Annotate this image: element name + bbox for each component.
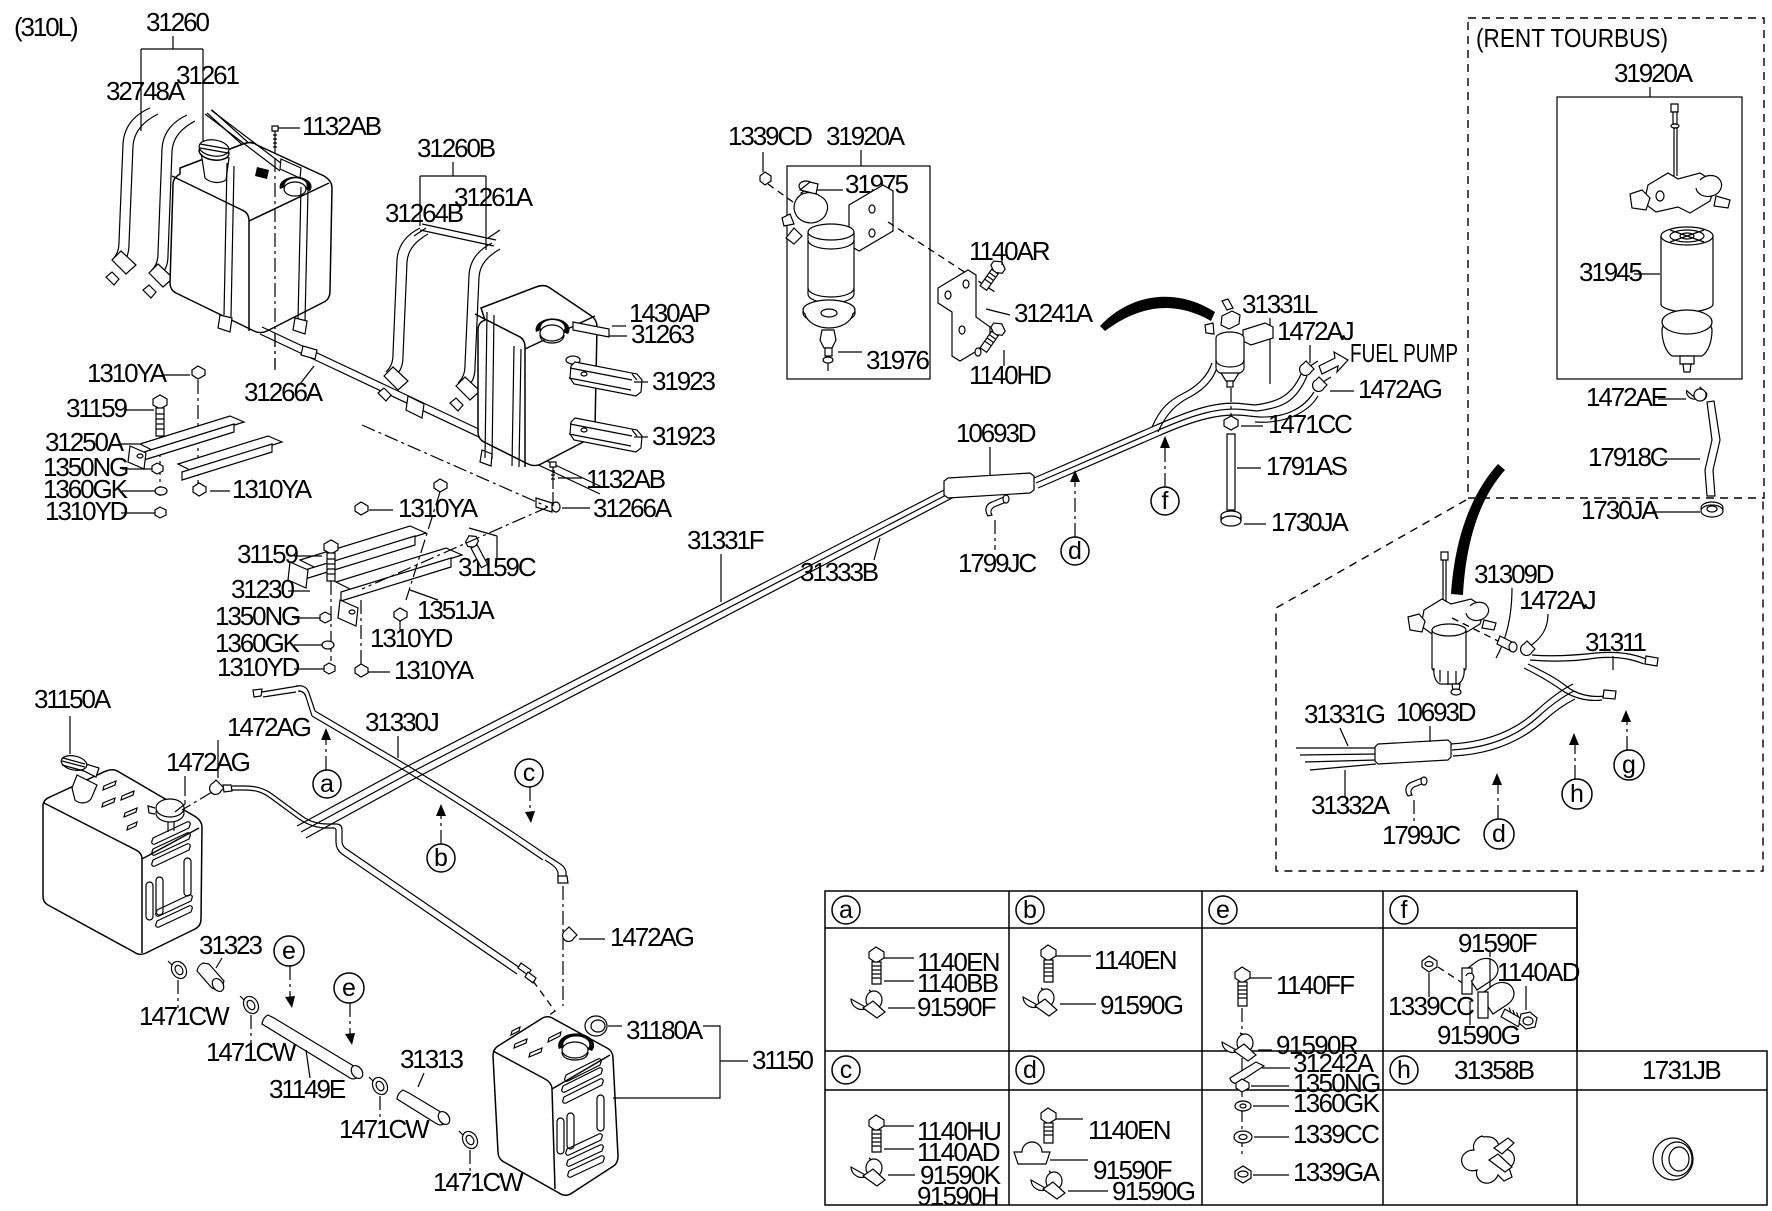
svg-text:31920A: 31920A [826,121,906,151]
svg-text:91590G: 91590G [1112,1176,1195,1206]
strap 32748A outer band [112,108,158,264]
pipe fitting mid [518,963,531,975]
crossmember tube from tank1 [260,327,602,494]
svg-text:1310YD: 1310YD [45,496,128,526]
clamp 1472AG bottom mid [563,927,577,941]
sensor rod [1671,104,1679,176]
cell c: bolt 1140HU/1140AD [869,1115,1000,1167]
svg-text:d: d [1492,820,1506,848]
bottom-right dashed group [1276,464,1763,871]
grommet 1730JA [1221,511,1241,526]
svg-text:1472AG: 1472AG [1358,374,1442,404]
svg-text:1472AJ: 1472AJ [1519,585,1596,615]
svg-text:31149E: 31149E [269,1074,346,1104]
svg-text:1310YD: 1310YD [370,623,453,653]
top face marks [511,1027,561,1057]
svg-text:31945: 31945 [1579,257,1642,287]
svg-text:1339GA: 1339GA [1293,1157,1381,1187]
clamp 1472AG top [210,780,224,794]
clamp 1472AJ icon [1521,641,1535,655]
cell f: clamp 91590F [1458,928,1537,994]
strap 31264B band [386,228,428,376]
svg-text:1339CC: 1339CC [1388,991,1474,1021]
cell e: nut 1339GA [1235,1157,1381,1187]
bolt 1140HD [978,320,1008,354]
circle g [1614,750,1644,780]
cell d: clamp 91590G [1031,1171,1195,1206]
cell b: bolt 1140EN [1041,945,1176,982]
clamp 1472AG mid [1313,377,1327,391]
cell d: clamp 91590F [1014,1142,1172,1185]
svg-text:91590G: 91590G [1437,1020,1520,1050]
circle d [1061,537,1089,565]
cell e: washer 1360GK [1235,1088,1381,1118]
pipe to fuel pump lower [1255,392,1318,422]
svg-text:d: d [1023,1056,1037,1084]
tank 31260 body [170,143,332,333]
bottom-left group [34,684,814,1197]
cell f: bolt 1140AD [1497,957,1580,1029]
cell d: bolt 1140EN [1041,1108,1170,1145]
filter canister 31920A [808,224,854,303]
S pipe from bundle to filter [1152,363,1216,432]
cell e: nut 1350NG [1236,1068,1380,1098]
strap 32748A foot [112,251,136,274]
drain sensor 31976 [820,330,929,375]
tank cap right [148,799,184,832]
clamp 1471CW 4 [459,1129,481,1152]
circle a [313,770,341,798]
top-left group: tank 31260 [14,7,602,685]
mounting bracket 31241A [938,270,990,361]
banjo fitting [1452,618,1500,642]
cell h: clamp 31358B icon [1462,1136,1515,1183]
svg-text:31923: 31923 [652,366,715,396]
sleeve 10693D [944,473,1034,498]
black swoosh top [1100,297,1215,331]
svg-text:31180A: 31180A [626,1015,704,1045]
filler cap 31150 black [558,1033,594,1051]
filter 31309D rod [1441,552,1448,560]
cell e: clamp 91590R [1222,1008,1358,1158]
inner solid box [1557,97,1742,379]
fuel pump arrow [1319,352,1348,374]
tank 31150 body [493,1017,618,1196]
svg-text:d: d [1068,537,1082,565]
svg-text:31323: 31323 [199,930,262,960]
svg-text:31331G: 31331G [1304,699,1385,729]
dashed boundary [1276,500,1763,871]
svg-text:1731JB: 1731JB [1642,1055,1720,1085]
pin for 31266A [301,346,317,359]
bolt 1132AB [272,111,381,368]
svg-text:32748A: 32748A [106,76,186,106]
table grid [825,891,1767,1205]
tube 1791AS [1227,434,1235,510]
circle c [515,759,543,787]
svg-text:31332A: 31332A [1311,790,1391,820]
svg-text:1310YD: 1310YD [217,652,300,682]
crossmember connector [406,396,424,418]
svg-text:31230: 31230 [231,574,294,604]
svg-text:(310L): (310L) [14,12,78,42]
svg-text:1310YA: 1310YA [232,474,313,504]
svg-text:f: f [1401,896,1408,924]
svg-text:1140AD: 1140AD [1497,957,1580,987]
circle e 1 [274,936,304,966]
svg-text:1471CW: 1471CW [139,1001,230,1031]
tank strap left face [224,163,234,317]
tank2 filler cap [536,318,570,343]
svg-text:31159: 31159 [66,393,128,423]
louvers right face [146,822,192,928]
strap top link [414,224,500,246]
svg-text:31261A: 31261A [454,182,534,212]
cell letter h [1390,1056,1418,1084]
clamp 1472AJ [1300,361,1314,375]
filter head bracket [782,182,893,251]
svg-text:b: b [1023,896,1037,924]
svg-text:1132AB: 1132AB [586,464,665,494]
box outline [787,166,930,379]
cell f: clamp 91590G [1437,982,1520,1050]
svg-text:1799JC: 1799JC [958,548,1036,578]
second bracket group 31230 [288,526,462,626]
tank2 small vent [566,356,580,364]
svg-text:1140HD: 1140HD [969,360,1051,390]
strap 31261 foot [149,264,173,287]
svg-text:c: c [840,1056,853,1084]
circle b [427,844,455,872]
svg-text:10693D: 10693D [956,418,1036,448]
svg-text:1730JA: 1730JA [1271,507,1349,537]
svg-text:31923: 31923 [652,421,715,451]
svg-text:1132AB: 1132AB [302,111,381,141]
svg-text:31976: 31976 [866,345,929,375]
svg-text:1140EN: 1140EN [1088,1115,1170,1145]
pipe end upper [1310,361,1318,366]
bolt 1132AB #2 [550,462,665,494]
svg-text:31313: 31313 [400,1044,463,1074]
bracket 31250A rails [128,416,282,480]
dashes to tank 31150 [533,981,565,1053]
tank 31260B body [478,286,597,466]
circle h [1562,779,1592,809]
svg-text:1140EN: 1140EN [1094,945,1176,975]
hose 31313 [397,1090,452,1127]
bundle from sleeve left [1296,748,1376,770]
svg-text:31920A: 31920A [1614,58,1694,88]
nut 1471CC [1224,416,1238,430]
svg-text:31264B: 31264B [385,198,463,228]
strap over top [205,110,286,171]
svg-text:e: e [1216,896,1230,924]
svg-text:31150A: 31150A [34,684,112,714]
tank2 group: 31260B [362,133,715,589]
label 31150 with bracket [613,1026,748,1098]
filler neck 31150A [60,753,99,802]
hose 17918C [1705,401,1720,496]
svg-text:1472AG: 1472AG [166,747,250,777]
filter head assembly [1630,173,1730,213]
cell e: bracket 31242A [1230,1048,1375,1083]
svg-text:f: f [1162,487,1169,515]
svg-text:1339CD: 1339CD [728,121,812,151]
clip 1799JC [986,495,1009,516]
svg-text:e: e [282,937,296,965]
clamp 1471CW 2 [240,994,262,1017]
svg-text:1310YA: 1310YA [394,655,475,685]
pin 31266A #2 [536,493,673,523]
svg-text:1351JA: 1351JA [417,595,495,625]
cell h: grommet 1731JB icon [1653,1138,1693,1180]
black swoosh right [1451,464,1505,595]
water bowl [1662,310,1712,372]
dashed leader to bracket [888,222,998,294]
cell a: clamp 91590F [851,990,996,1022]
clamp 1471CW 1 [168,959,190,982]
tank top face edge [172,176,249,331]
svg-text:a: a [839,896,853,924]
svg-text:31260B: 31260B [417,133,495,163]
cell f: nut 1339CC [1388,956,1474,1021]
svg-text:1140FF: 1140FF [1276,970,1354,1000]
tube 1430AP [573,298,710,349]
svg-text:31261: 31261 [176,60,239,90]
svg-text:91590G: 91590G [1100,990,1183,1020]
cell b: clamp 91590G [1023,988,1183,1020]
clip 1799JC #2 [1406,777,1427,796]
svg-text:1140AR: 1140AR [969,236,1050,266]
tank strap right face [298,187,308,321]
svg-text:h: h [1397,1056,1411,1084]
svg-text:1310YA: 1310YA [87,358,168,388]
cell letter d [1016,1056,1044,1084]
svg-text:31150: 31150 [752,1045,814,1075]
svg-text:b: b [434,844,448,872]
nut 1339CD [760,172,771,185]
main 3-line bundle [297,487,950,826]
RENT TOURBUS dashed box [1468,18,1764,525]
hose 31323 [197,963,226,994]
clamp 1471CW 3 [369,1075,391,1098]
svg-text:1791AS: 1791AS [1266,451,1348,481]
svg-text:(RENT TOURBUS): (RENT TOURBUS) [1476,23,1668,53]
svg-text:91590F: 91590F [1458,928,1537,958]
svg-text:31263: 31263 [631,319,694,349]
circle f [1151,487,1179,515]
circle d2 [1484,819,1514,849]
bundle right of sleeve 2 [1451,684,1575,756]
svg-text:31266A: 31266A [244,377,324,407]
top face marks [102,781,137,830]
tank2 strap overlay [480,312,494,466]
svg-text:1350NG: 1350NG [215,601,300,631]
svg-text:h: h [1570,780,1584,808]
svg-text:31241A: 31241A [1014,298,1094,328]
svg-text:31331L: 31331L [1242,289,1318,319]
cell letter b [1016,896,1044,924]
svg-text:e: e [342,974,356,1002]
svg-text:1471CW: 1471CW [339,1114,430,1144]
svg-text:31159: 31159 [237,539,299,569]
svg-text:31331F: 31331F [687,525,764,555]
31330J S-down to cap [545,856,566,881]
svg-text:FUEL PUMP: FUEL PUMP [1350,338,1458,368]
tank pipe open end [223,785,232,792]
svg-text:91590F: 91590F [917,992,996,1022]
svg-text:17918C: 17918C [1588,442,1668,472]
tank 31150A body [43,753,202,954]
bolt 31975 [799,169,908,203]
cell a: bolt 1140EN/1140BB [869,947,999,998]
svg-text:31333B: 31333B [800,557,878,587]
bolt 1140AR [978,258,1008,292]
pipe end lower [1323,377,1331,382]
svg-text:1799JC: 1799JC [1382,820,1460,850]
svg-text:1471CW: 1471CW [433,1167,524,1197]
svg-text:1339CC: 1339CC [1293,1119,1379,1149]
dash from filter to nut [1230,388,1232,416]
svg-text:1472AG: 1472AG [227,712,311,742]
strap 31261 band [151,115,195,275]
fuel filter 31331L [1205,299,1273,387]
svg-text:a: a [320,770,334,798]
small cap on tank [280,177,312,196]
svg-text:31358B: 31358B [1454,1055,1534,1085]
filter 31309D head [1408,599,1496,635]
svg-text:31260: 31260 [146,7,209,37]
louvers right face [557,1059,604,1178]
rail 31923 lower [569,418,642,452]
circle e 2 [334,973,364,1003]
svg-text:1472AJ: 1472AJ [1277,316,1354,346]
cell c: clamp 91590K/91590H [851,1158,1002,1211]
rail 31923 upper [569,362,642,396]
svg-text:31311: 31311 [1585,627,1647,657]
pipes 31311 [1530,652,1646,664]
svg-text:1472AG: 1472AG [610,922,694,952]
strap 31261A band [458,243,500,387]
svg-text:91590H: 91590H [917,1181,998,1211]
svg-text:1471CC: 1471CC [1268,409,1352,439]
cell e: bolt 1140FF [1235,967,1354,1006]
bundle right of sleeve [1034,403,1255,478]
nut 1310YA #1 [192,366,205,379]
cell e: washer 1339CC [1234,1119,1379,1149]
strap over tank top [207,110,252,149]
tank filler neck [198,138,230,182]
svg-text:1730JA: 1730JA [1581,495,1659,525]
vent ring 31180A [585,1016,607,1036]
cell letter f [1390,896,1418,924]
fuel filter box 31920A [728,121,1215,390]
cell letter a [832,896,860,924]
hose 31149E [262,1015,365,1081]
dash-dot construction lines [362,425,548,507]
pipe to fuel pump upper [1255,372,1307,411]
dash 1132AB over tank [274,158,276,370]
svg-text:1472AE: 1472AE [1586,382,1668,412]
svg-text:31330J: 31330J [365,707,439,737]
cell letter c [832,1056,860,1084]
svg-text:c: c [523,759,536,787]
parts table [825,891,1767,1211]
sleeve 10693D #2 [1375,740,1451,764]
pipe 31330J [262,686,298,697]
svg-text:10693D: 10693D [1396,697,1476,727]
cell letter e [1209,896,1237,924]
filter 31309D canister [1432,624,1466,695]
tank pipe U-bend and diagonal [336,836,523,974]
svg-text:g: g [1622,751,1636,779]
filter bowl [803,300,855,328]
tank pipe from 31150A [232,786,342,839]
svg-text:1360GK: 1360GK [1293,1088,1381,1118]
svg-text:31266A: 31266A [593,493,673,523]
filter cartridge 31945 [1661,227,1713,312]
middle fuel line bundle [297,289,1458,838]
